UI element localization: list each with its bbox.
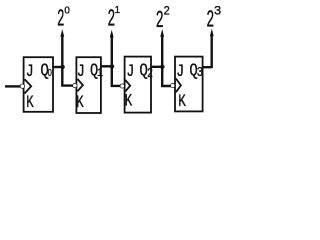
svg-text:K: K	[178, 91, 186, 112]
svg-text:2: 2	[147, 66, 153, 82]
svg-text:J: J	[176, 61, 184, 81]
svg-text:K: K	[76, 92, 84, 113]
svg-text:J: J	[77, 62, 85, 82]
svg-text:K: K	[125, 90, 133, 111]
svg-text:J: J	[26, 61, 34, 81]
svg-text:1: 1	[97, 67, 103, 79]
svg-text:2: 2	[156, 7, 164, 34]
svg-text:0: 0	[48, 67, 52, 78]
svg-text:1: 1	[115, 5, 120, 16]
svg-text:3: 3	[214, 3, 222, 18]
svg-text:2: 2	[57, 5, 64, 33]
svg-text:J: J	[126, 61, 134, 81]
svg-text:2: 2	[163, 4, 170, 19]
svg-text:0: 0	[64, 5, 70, 16]
svg-text:3: 3	[197, 65, 203, 81]
svg-text:K: K	[26, 92, 34, 113]
